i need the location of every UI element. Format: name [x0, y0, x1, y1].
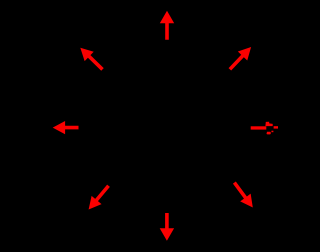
arrow S (bottom, pointing down): [160, 213, 174, 241]
arrow E head fragment: upper-left chunk: [265, 122, 272, 126]
arrow E head fragment: small dot below tip: [271, 131, 273, 133]
arrow SE (bottom-right, pointing down-right): [229, 179, 258, 212]
arrow W (left, pointing left): [53, 121, 79, 134]
arrow E head fragment: tip sliver: [274, 126, 278, 128]
arrow E head fragment: lower-left chunk: [267, 132, 272, 135]
arrow SW (bottom-left, pointing down-left): [84, 182, 114, 214]
arrow NW (top-left, pointing up-left): [76, 43, 107, 74]
arrow E shaft (right, pointing right): [251, 126, 267, 129]
arrow NE (top-right, pointing up-right): [225, 43, 256, 74]
arrow N (top, pointing up): [160, 11, 174, 40]
